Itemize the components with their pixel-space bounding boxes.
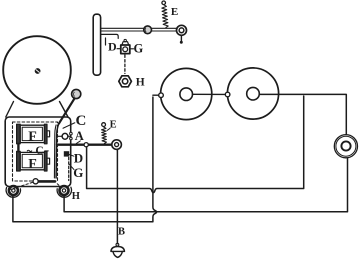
svg-text:F: F — [28, 157, 37, 172]
svg-text:E: E — [171, 6, 178, 18]
svg-text:B: B — [118, 226, 125, 237]
svg-text:H: H — [72, 191, 80, 202]
svg-text:F: F — [28, 130, 37, 145]
svg-text:A: A — [75, 129, 84, 143]
svg-text:G: G — [73, 165, 83, 180]
svg-text:D: D — [74, 151, 83, 166]
svg-text:E: E — [110, 119, 117, 130]
svg-text:D: D — [108, 40, 117, 54]
svg-text:H: H — [136, 76, 145, 88]
svg-text:C: C — [35, 145, 43, 157]
svg-text:G: G — [134, 41, 144, 55]
svg-text:C: C — [76, 113, 87, 129]
